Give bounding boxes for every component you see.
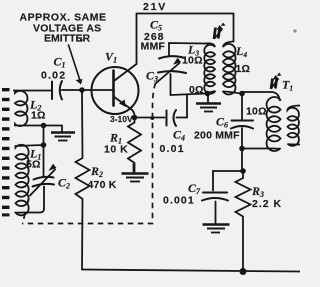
svg-text:0.01: 0.01 [160, 143, 185, 155]
svg-text:10 K: 10 K [104, 144, 128, 156]
svg-text:EMITTER: EMITTER [44, 33, 90, 45]
svg-text:3-10V: 3-10V [110, 114, 133, 124]
svg-text:5Ω: 5Ω [26, 159, 41, 171]
svg-text:0Ω: 0Ω [189, 84, 204, 96]
svg-text:MMF: MMF [141, 41, 166, 53]
svg-text:1Ω: 1Ω [31, 110, 46, 122]
svg-text:0.02: 0.02 [41, 70, 66, 82]
svg-text:1Ω: 1Ω [236, 63, 251, 75]
svg-text:10Ω: 10Ω [182, 55, 203, 67]
svg-text:470 K: 470 K [88, 179, 117, 191]
svg-text:21V: 21V [143, 1, 167, 13]
svg-text:0.001: 0.001 [163, 195, 195, 207]
svg-text:2.2 K: 2.2 K [252, 198, 282, 210]
svg-text:200 MMF: 200 MMF [194, 130, 240, 142]
svg-text:10Ω: 10Ω [246, 106, 267, 118]
